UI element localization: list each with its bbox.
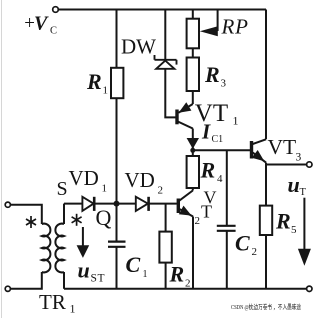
svg-text:Q: Q	[96, 205, 112, 230]
polarity star secondary	[72, 214, 82, 226]
svg-text:2: 2	[158, 185, 164, 197]
svg-text:VD: VD	[69, 166, 99, 190]
wire R5 branch	[265, 165, 267, 206]
svg-text:V: V	[34, 13, 49, 35]
svg-text:1: 1	[233, 114, 239, 128]
wire R1 to node Q	[116, 98, 118, 241]
wire RP to R3	[192, 48, 194, 57]
primary winding TR1	[42, 224, 51, 273]
terminal primary bottom	[5, 286, 10, 291]
wire VD2 to VT2 base	[149, 203, 177, 205]
wire R2 bottom	[165, 263, 167, 289]
wire bottom rail	[64, 288, 307, 290]
secondary winding TR1	[55, 224, 64, 273]
svg-text:1: 1	[143, 269, 148, 280]
node Q dot	[114, 201, 120, 207]
svg-text:1: 1	[103, 85, 109, 97]
wire R3 to VT1 emitter	[192, 91, 194, 104]
terminal bottom right	[307, 286, 312, 291]
svg-text:3: 3	[296, 152, 302, 164]
svg-text:2: 2	[252, 246, 258, 258]
terminal +Vc	[53, 7, 59, 13]
svg-text:R: R	[86, 69, 102, 94]
capacitor C1	[108, 242, 126, 247]
arrow uST	[82, 227, 84, 246]
resistor R1	[111, 68, 123, 98]
zener diode DW	[155, 55, 177, 69]
polarity star primary	[26, 216, 36, 228]
svg-text:1: 1	[70, 302, 76, 316]
wire R2 branch	[165, 204, 167, 232]
svg-text:3: 3	[221, 78, 227, 90]
svg-text:4: 4	[217, 173, 223, 185]
resistor R5	[260, 206, 272, 235]
svg-text:T: T	[300, 187, 307, 198]
svg-text:R: R	[204, 62, 220, 87]
transistor VT2	[178, 191, 193, 289]
diode VD2	[136, 197, 149, 211]
wire RP branch top	[192, 10, 194, 19]
wire C2 bottom	[226, 231, 228, 289]
svg-text:VT: VT	[268, 135, 297, 159]
wire DW to VT1 base	[165, 69, 175, 118]
wire VD1 to VD2	[94, 203, 136, 205]
terminal output top	[307, 162, 312, 167]
svg-text:C: C	[126, 252, 141, 277]
svg-text:1: 1	[102, 183, 108, 195]
svg-text:ST: ST	[91, 273, 106, 285]
wiper arrow RP	[200, 26, 218, 36]
svg-text:2: 2	[185, 278, 191, 290]
resistor R4	[187, 156, 199, 188]
svg-text:C: C	[50, 26, 57, 37]
svg-text:2: 2	[195, 215, 201, 227]
current arrow IC1	[187, 138, 199, 149]
resistor R2	[159, 232, 171, 263]
resistor R3	[187, 58, 199, 92]
svg-text:S: S	[57, 178, 68, 200]
potentiometer RP	[187, 19, 199, 49]
wire VT1 collector to VT3 base	[193, 149, 250, 151]
svg-text:5: 5	[291, 224, 297, 236]
wire secondary top	[63, 204, 65, 224]
node dot collector VT1	[190, 148, 195, 153]
wire C2 branch top	[226, 150, 228, 226]
wire secondary to VD1	[64, 203, 82, 205]
svg-text:C1: C1	[212, 134, 224, 145]
svg-text:VT: VT	[195, 100, 228, 127]
svg-text:R: R	[275, 209, 291, 234]
wire R4 to VT2 collector	[192, 188, 194, 191]
wire primary top	[10, 205, 41, 224]
terminal primary top	[5, 202, 10, 207]
wire node to R4	[192, 150, 194, 156]
wire DW branch top	[164, 10, 166, 60]
svg-text:TR: TR	[39, 290, 66, 314]
svg-text:RP: RP	[221, 15, 249, 39]
wire R1 branch top	[116, 10, 118, 69]
svg-text:CSDN @枕边万卷书 ，不入愚昧途: CSDN @枕边万卷书 ，不入愚昧途	[231, 302, 302, 311]
svg-text:u: u	[288, 172, 300, 197]
wire primary bottom	[10, 272, 41, 289]
edge artifact line	[1, 0, 3, 318]
wiper wire RP	[217, 10, 219, 32]
transistor VT3	[252, 10, 267, 165]
svg-text:I: I	[201, 120, 211, 144]
capacitor C2	[217, 226, 236, 231]
arrow uT	[303, 198, 305, 249]
wire R5 bottom	[265, 235, 267, 289]
svg-text:DW: DW	[121, 35, 156, 59]
svg-text:u: u	[78, 258, 90, 283]
wire top rail	[58, 9, 266, 11]
svg-text:R: R	[169, 262, 185, 287]
svg-text:C: C	[235, 231, 250, 256]
wire C1 bottom	[116, 247, 118, 289]
wire VT3 emitter to terminal	[266, 164, 307, 166]
svg-text:T: T	[201, 202, 212, 222]
svg-text:R: R	[200, 158, 216, 183]
diode VD1	[82, 197, 94, 211]
wire secondary bottom	[63, 272, 65, 289]
transistor VT1	[177, 102, 193, 150]
svg-text:VD: VD	[125, 168, 155, 192]
